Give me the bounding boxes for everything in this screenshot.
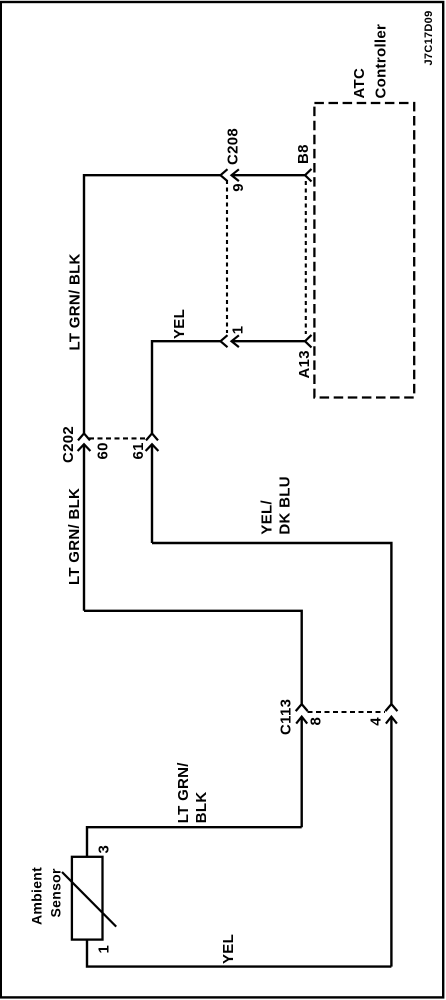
label pin 9: [230, 183, 247, 192]
wire label LT GRN/BLK (middle): [66, 488, 83, 585]
connector C113 pin 8 female half: [296, 704, 308, 711]
svg-text:C202: C202: [60, 426, 77, 463]
connector link C113 (dashed): [308, 711, 386, 713]
label sensor pin 1: [96, 945, 113, 954]
svg-text:8: 8: [308, 717, 325, 726]
svg-text:1: 1: [96, 945, 113, 954]
connector link C202 (dashed): [89, 437, 148, 439]
connector C113 pin 4 female half: [385, 704, 397, 711]
svg-text:A13: A13: [296, 350, 313, 378]
connector link B8-A13 (dotted): [305, 181, 307, 334]
svg-text:B8: B8: [295, 144, 312, 164]
svg-text:DK BLU: DK BLU: [277, 476, 294, 534]
svg-text:LT GRN/: LT GRN/: [175, 762, 192, 824]
diagram id label J7C17D09: [423, 11, 435, 66]
label C208: [225, 128, 242, 165]
connector C113 pin 4 male half: [386, 717, 397, 967]
label pin 61: [130, 442, 147, 459]
wire YEL/DK BLU (C202-61 to C113-4): [152, 543, 391, 704]
svg-text:Sensor: Sensor: [47, 868, 63, 918]
wire label LT GRN/BLK (bottom, two lines): [175, 762, 210, 824]
wire label YEL (bottom): [220, 934, 237, 964]
label A13: [296, 350, 313, 378]
svg-text:1: 1: [230, 326, 247, 335]
label B8: [295, 144, 312, 164]
label pin 1: [230, 326, 247, 335]
wire label YEL (top): [171, 309, 188, 339]
connector C202 pin 61 male half: [146, 444, 159, 543]
svg-text:YEL/: YEL/: [259, 500, 276, 535]
connector C208 pin 1 male half: [232, 335, 306, 347]
wire LT GRN/BLK (C202-60 to C113-8): [84, 611, 302, 704]
connector C208 pin 9 female half: [221, 169, 228, 181]
svg-text:61: 61: [130, 442, 147, 459]
svg-text:4: 4: [368, 717, 385, 726]
ATC pin A13 chevron: [305, 335, 312, 348]
svg-text:BLK: BLK: [193, 791, 210, 823]
connector C202 pin 60 female half: [78, 433, 90, 440]
Ambient Sensor thermistor box: [62, 857, 116, 940]
label C113: [278, 699, 295, 735]
svg-text:Controller: Controller: [373, 24, 390, 99]
connector C202 pin 60 male half: [78, 444, 91, 611]
svg-text:LT GRN/ BLK: LT GRN/ BLK: [66, 488, 83, 585]
label Ambient Sensor: [29, 867, 64, 925]
connector C208 pin 1 female half: [221, 335, 228, 347]
connector C113 pin 8 male half: [296, 717, 307, 828]
svg-text:Ambient: Ambient: [29, 867, 45, 925]
svg-text:C208: C208: [225, 128, 242, 165]
wire YEL (sensor pin 1 to C113-4): [87, 940, 391, 967]
connector C208 pin 9 male half: [232, 169, 306, 181]
connector link C208 (dotted): [226, 180, 228, 333]
ATC pin B8 chevron: [305, 169, 312, 182]
svg-text:ATC: ATC: [351, 68, 368, 99]
ATC Controller component box (dashed): [314, 103, 414, 398]
svg-text:60: 60: [95, 442, 112, 459]
connector C202 pin 61 female half: [146, 433, 158, 440]
label ATC Controller: [351, 24, 390, 99]
label pin 60: [95, 442, 112, 459]
svg-text:3: 3: [96, 845, 113, 854]
wire label LT GRN/BLK (top): [67, 253, 84, 350]
label pin 4: [368, 717, 385, 726]
svg-text:J7C17D09: J7C17D09: [423, 11, 435, 66]
label C202: [60, 426, 77, 463]
label sensor pin 3: [96, 845, 113, 854]
wire label YEL/DK BLU: [259, 476, 294, 534]
wire LT GRN/BLK (C113-8 to sensor pin 3): [87, 827, 302, 857]
svg-text:LT GRN/ BLK: LT GRN/ BLK: [67, 253, 84, 350]
wire YEL (C202-61 to C208-1): [152, 341, 221, 433]
svg-text:9: 9: [230, 183, 247, 192]
label pin 8: [308, 717, 325, 726]
svg-text:YEL: YEL: [171, 309, 188, 339]
svg-text:YEL: YEL: [220, 934, 237, 964]
wire LT GRN/BLK top horizontal segment (C202-60 to C208-9): [84, 175, 221, 433]
svg-text:C113: C113: [278, 699, 295, 735]
